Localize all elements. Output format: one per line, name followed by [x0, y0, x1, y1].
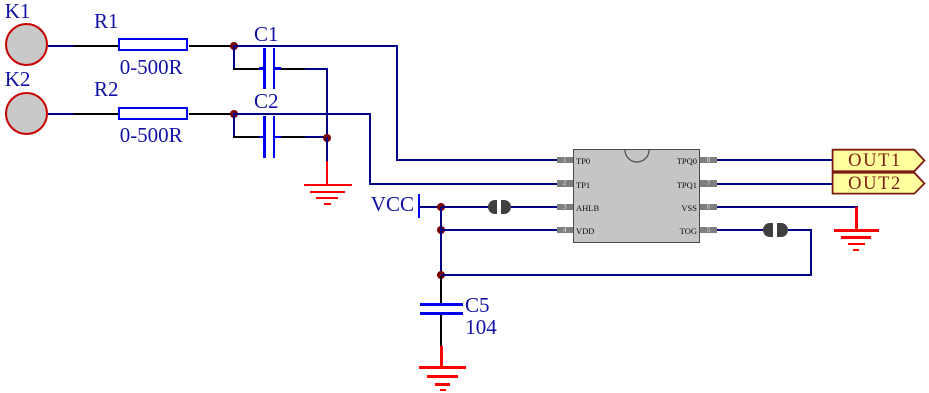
wire R1 to node A [189, 45, 234, 47]
wire node A down to C1 [233, 46, 235, 70]
resistor R2 [118, 107, 188, 120]
wire C2 to node C [305, 136, 327, 138]
ground symbol below C5 [440, 346, 442, 368]
wire C2 right pin [281, 136, 306, 138]
wire node B down to C2 [233, 114, 235, 138]
pin name TP0 [576, 157, 590, 166]
wire node F down to C5 [440, 276, 442, 304]
wire node E to IC pin VDD [442, 229, 557, 231]
wire VCC bar to node D [419, 206, 442, 208]
node B junction dot [230, 110, 238, 118]
wire C1 to node C (right then down) [305, 68, 328, 70]
wire IC pin VSS to ground [717, 206, 858, 208]
ferrite bead on AHLB wire [488, 200, 497, 214]
value 104 of C5 [465, 317, 497, 338]
node E junction dot [437, 226, 445, 234]
IC pin 7 stub [700, 180, 717, 187]
wire IC pin TOG to bead [717, 229, 764, 231]
wire node C down to ground [326, 137, 328, 161]
port OUT2 text [843, 175, 907, 194]
pad K1 [5, 23, 48, 66]
IC U1 body [573, 149, 700, 243]
wire IC pin TPQ1 to port OUT2 [717, 183, 834, 185]
ground symbol at node C [326, 161, 328, 184]
wire IC pin TPQ0 to port OUT1 [717, 159, 834, 161]
pin name VDD [576, 227, 594, 236]
wire bead right then down then left to node F [788, 229, 812, 231]
wire node D down through E to node F [440, 207, 442, 277]
pin name TPQ1 [676, 181, 697, 190]
wire to C2 left pin [233, 136, 260, 138]
wire C1 right pin [281, 68, 306, 70]
node D junction dot [437, 203, 445, 211]
label K2 [5, 69, 31, 90]
power port VCC label [371, 194, 414, 215]
pin name VSS [676, 204, 697, 213]
IC U1 notch [623, 149, 651, 165]
label K1 [5, 1, 31, 22]
wire R2 to node B [189, 113, 234, 115]
node C junction dot [323, 134, 331, 142]
capacitor C1 [259, 67, 264, 69]
port OUT1 text [843, 152, 907, 171]
ground symbol at VSS [855, 207, 857, 230]
value 0-500R of R2 [120, 125, 183, 146]
label C2 [254, 91, 279, 112]
IC pin 6 stub [700, 204, 717, 211]
IC pin 2 stub [557, 180, 574, 187]
IC pin 3 stub [557, 204, 574, 211]
wire K2 to R2 [74, 113, 120, 115]
ferrite bead on TOG wire [763, 223, 773, 238]
label R1 [94, 11, 119, 32]
IC pin 5 stub [700, 227, 717, 234]
wire K1 to R1 [74, 45, 120, 47]
pin name AHLB [576, 204, 599, 213]
label C1 [254, 24, 279, 45]
wire C5 down [440, 315, 442, 346]
port OUT1 flag [830, 147, 929, 196]
resistor R1 [118, 38, 188, 51]
pin of pad K2 [48, 113, 75, 115]
pin name TPQ0 [676, 157, 697, 166]
wire node B to IC pin TP1 (right, down, right) [233, 113, 371, 115]
IC pin 1 stub [557, 157, 574, 164]
value 0-500R of R1 [120, 57, 183, 78]
capacitor C2 [259, 136, 264, 138]
power port VCC bar [418, 194, 421, 218]
node F junction dot [437, 271, 445, 279]
node A junction dot [230, 42, 238, 50]
pad K2 [5, 92, 48, 135]
label R2 [94, 79, 119, 100]
IC pin 4 stub [557, 227, 574, 234]
capacitor C5 [420, 303, 463, 306]
pin name TP1 [576, 181, 590, 190]
wire node A to IC pin TP0 (right, down, right) [233, 45, 397, 47]
label C5 [465, 295, 490, 316]
pin name TOG [676, 227, 697, 236]
wire node D to bead on AHLB [442, 206, 489, 208]
wire bead to IC pin AHLB [511, 206, 558, 208]
IC pin 8 stub [700, 157, 717, 164]
pin of pad K1 [48, 45, 75, 47]
wire to C1 left pin [233, 68, 260, 70]
